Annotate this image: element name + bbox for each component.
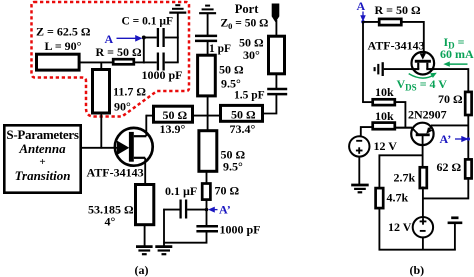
series TL 11.7ohm 90deg [93, 70, 110, 114]
node A' dot [205, 208, 209, 212]
svg-text:L = 90°: L = 90° [45, 39, 82, 53]
wire stub to gate line [100, 113, 102, 149]
svg-text:VDS = 4 V: VDS = 4 V [397, 77, 448, 93]
gate wire [81, 147, 119, 149]
svg-text:S-Parameters: S-Parameters [6, 127, 78, 142]
bottom wire (b) [379, 249, 456, 251]
sideways ground (b) [375, 62, 383, 76]
green ID arrow [443, 61, 467, 66]
wire 10k2 right [395, 127, 412, 129]
svg-text:4°: 4° [105, 215, 116, 229]
wire 1000pF to ground column [165, 61, 179, 63]
arrow A (blue) [117, 36, 142, 41]
TL 50ohm 9.5deg (lower) [199, 131, 217, 172]
svg-text:Port: Port [235, 2, 259, 16]
svg-text:(a): (a) [135, 263, 149, 277]
svg-text:A: A [105, 32, 114, 46]
ground (b left) [351, 185, 369, 192]
ground (top of red box, inverted) [169, 5, 186, 12]
wire 10k2 left [361, 127, 373, 137]
node A dot [142, 36, 146, 40]
wire R to gate column [401, 22, 424, 54]
TL 50ohm 30deg box [269, 36, 285, 74]
resistor 10k (1) [373, 99, 395, 105]
wire cap to node A' [187, 209, 207, 211]
middle column top: port ground stem [207, 13, 209, 36]
capacitor 0.1uF (a bottom) [181, 200, 187, 219]
port symbol [272, 4, 279, 21]
wire port to TL [275, 20, 277, 36]
shunt stub 53.185 [136, 185, 154, 225]
green VDS arc arrow [409, 73, 437, 78]
red dashed boundary [32, 2, 190, 117]
svg-text:0.1 µF: 0.1 µF [165, 184, 197, 198]
TL 50ohm 73.4deg box [221, 105, 263, 121]
svg-text:9.5°: 9.5° [223, 160, 243, 174]
svg-text:A’: A’ [440, 132, 452, 146]
svg-text:1000 pF: 1000 pF [142, 68, 183, 82]
resistor R 50ohm (b) [379, 19, 401, 25]
svg-text:1.5 pF: 1.5 pF [234, 89, 265, 101]
svg-text:+: + [39, 156, 45, 168]
wire TL to R [80, 61, 113, 63]
wire 4.7k bottom [378, 208, 380, 251]
svg-text:Transition: Transition [15, 168, 71, 183]
ground (a middle top, inverted) [199, 6, 216, 14]
svg-text:(b): (b) [410, 263, 425, 277]
wire TL to 70ohm [206, 171, 208, 184]
svg-text:12 V: 12 V [374, 139, 398, 153]
svg-text:ATF-34143: ATF-34143 [368, 39, 425, 53]
wire 62ohm down to junction [423, 178, 468, 199]
wire cap to ground column [165, 37, 179, 39]
resistor 2.7k [420, 167, 427, 188]
svg-text:70 Ω: 70 Ω [438, 92, 463, 106]
wire A node to cap [145, 37, 157, 39]
row wire left [146, 115, 154, 117]
resistor 4.7k [376, 188, 384, 208]
source wire down [144, 158, 146, 184]
svg-text:Z = 62.5 Ω: Z = 62.5 Ω [36, 25, 91, 39]
transistor ATF-34143 (a) [115, 128, 153, 166]
svg-text:1000 pF: 1000 pF [220, 223, 261, 237]
svg-text:1 pF: 1 pF [209, 43, 231, 55]
wire 10k1 left [362, 101, 373, 103]
wire junction to stub 11.7 [100, 62, 102, 69]
resistor 70ohm (a) [202, 184, 210, 200]
capacitor C 0.1uF (a top) [158, 28, 164, 47]
svg-text:2N2907: 2N2907 [408, 108, 447, 122]
wire TL to 1.5pF [275, 74, 277, 89]
transistor ATF-34143 (b) [412, 52, 435, 75]
svg-text:10k: 10k [375, 85, 394, 99]
capacitor 1000pF (a bottom) [196, 226, 218, 231]
svg-text:R = 50 Ω: R = 50 Ω [96, 45, 143, 59]
row wire middle [193, 115, 222, 117]
resistor 70ohm (b) [465, 92, 471, 115]
wire A to R (b) [362, 21, 379, 23]
wire to cap 0.1uF bottom [163, 209, 179, 211]
resistor 62ohm (b) [465, 159, 471, 178]
wire 4.7k top [379, 155, 422, 188]
svg-text:4.7k: 4.7k [387, 191, 409, 205]
svg-text:50 Ω: 50 Ω [231, 108, 256, 122]
resistor R 50ohm (a) [113, 59, 134, 64]
S-parameters block [4, 125, 80, 192]
TL 50ohm 13.9deg box [154, 106, 193, 122]
svg-text:12 V: 12 V [388, 220, 412, 234]
svg-text:10k: 10k [375, 109, 394, 123]
wire 2.7k to 12V (2) [422, 187, 424, 219]
TL 50ohm 9.5deg (upper) [198, 55, 216, 96]
arrow A' right (blue) [455, 137, 470, 142]
collector wire (b) [396, 127, 412, 129]
svg-text:90°: 90° [114, 100, 131, 114]
svg-text:30°: 30° [243, 48, 260, 62]
source 12V (2) [413, 217, 433, 237]
right column 70 to 62 [467, 114, 469, 160]
emitter wire (b) [431, 124, 469, 126]
wire 10k1 right [395, 102, 406, 128]
open stub TL Z=62.5 L=90 [37, 54, 80, 70]
svg-text:2.7k: 2.7k [394, 171, 416, 185]
svg-text:Antenna: Antenna [18, 141, 66, 156]
ground 2 (a) [155, 247, 172, 255]
wire R to junction [134, 61, 145, 63]
drain wire (b) [434, 69, 469, 91]
svg-text:11.7 Ω: 11.7 Ω [113, 85, 146, 99]
wire 1.5pF down-left to 73.4 box [262, 94, 276, 113]
svg-text:73.4°: 73.4° [230, 122, 256, 136]
wire 12V2 to bottom [422, 237, 424, 250]
left column (b) [362, 22, 364, 102]
wire 1000pF down and left [163, 231, 206, 242]
capacitor 1.5pF [267, 89, 287, 94]
source 12V (1) [349, 136, 369, 156]
arrow A down (blue) [361, 12, 365, 24]
svg-text:ATF-34143: ATF-34143 [87, 166, 144, 180]
arrow A' (blue) [209, 207, 217, 211]
wire 1pF to TL box [207, 41, 209, 55]
source wire (b) [384, 68, 412, 70]
drain wire up [145, 115, 147, 137]
svg-text:70 Ω: 70 Ω [215, 184, 240, 198]
wire stub to ground [144, 225, 146, 246]
svg-text:Z0 = 50 Ω: Z0 = 50 Ω [221, 18, 269, 32]
wire box to row [207, 96, 209, 130]
transistor 2N2907 [411, 123, 433, 145]
wire 70ohm to node A' [206, 199, 208, 226]
svg-text:60 mA: 60 mA [440, 47, 474, 61]
wire 12V to ground [358, 156, 360, 184]
wire node A column [143, 37, 145, 64]
ground 1 (a) [136, 247, 153, 255]
svg-text:50 Ω: 50 Ω [163, 108, 188, 122]
svg-text:A’: A’ [219, 203, 231, 217]
svg-text:A: A [357, 0, 366, 13]
base wire down [422, 136, 424, 168]
svg-text:C = 0.1 µF: C = 0.1 µF [122, 16, 174, 28]
wire ground2 column [163, 209, 165, 247]
svg-text:62 Ω: 62 Ω [437, 160, 462, 174]
svg-text:R = 50 Ω: R = 50 Ω [375, 3, 422, 17]
resistor 10k (2) [373, 123, 395, 130]
ground column (red box) [177, 13, 179, 62]
svg-text:13.9°: 13.9° [160, 122, 186, 136]
ground (b right, inverted) [448, 218, 463, 251]
capacitor 1pF [195, 36, 217, 41]
svg-text:50 Ω: 50 Ω [219, 63, 244, 77]
capacitor 1000pF (a top) [158, 53, 164, 71]
wire junction to 1000pF [144, 61, 157, 63]
